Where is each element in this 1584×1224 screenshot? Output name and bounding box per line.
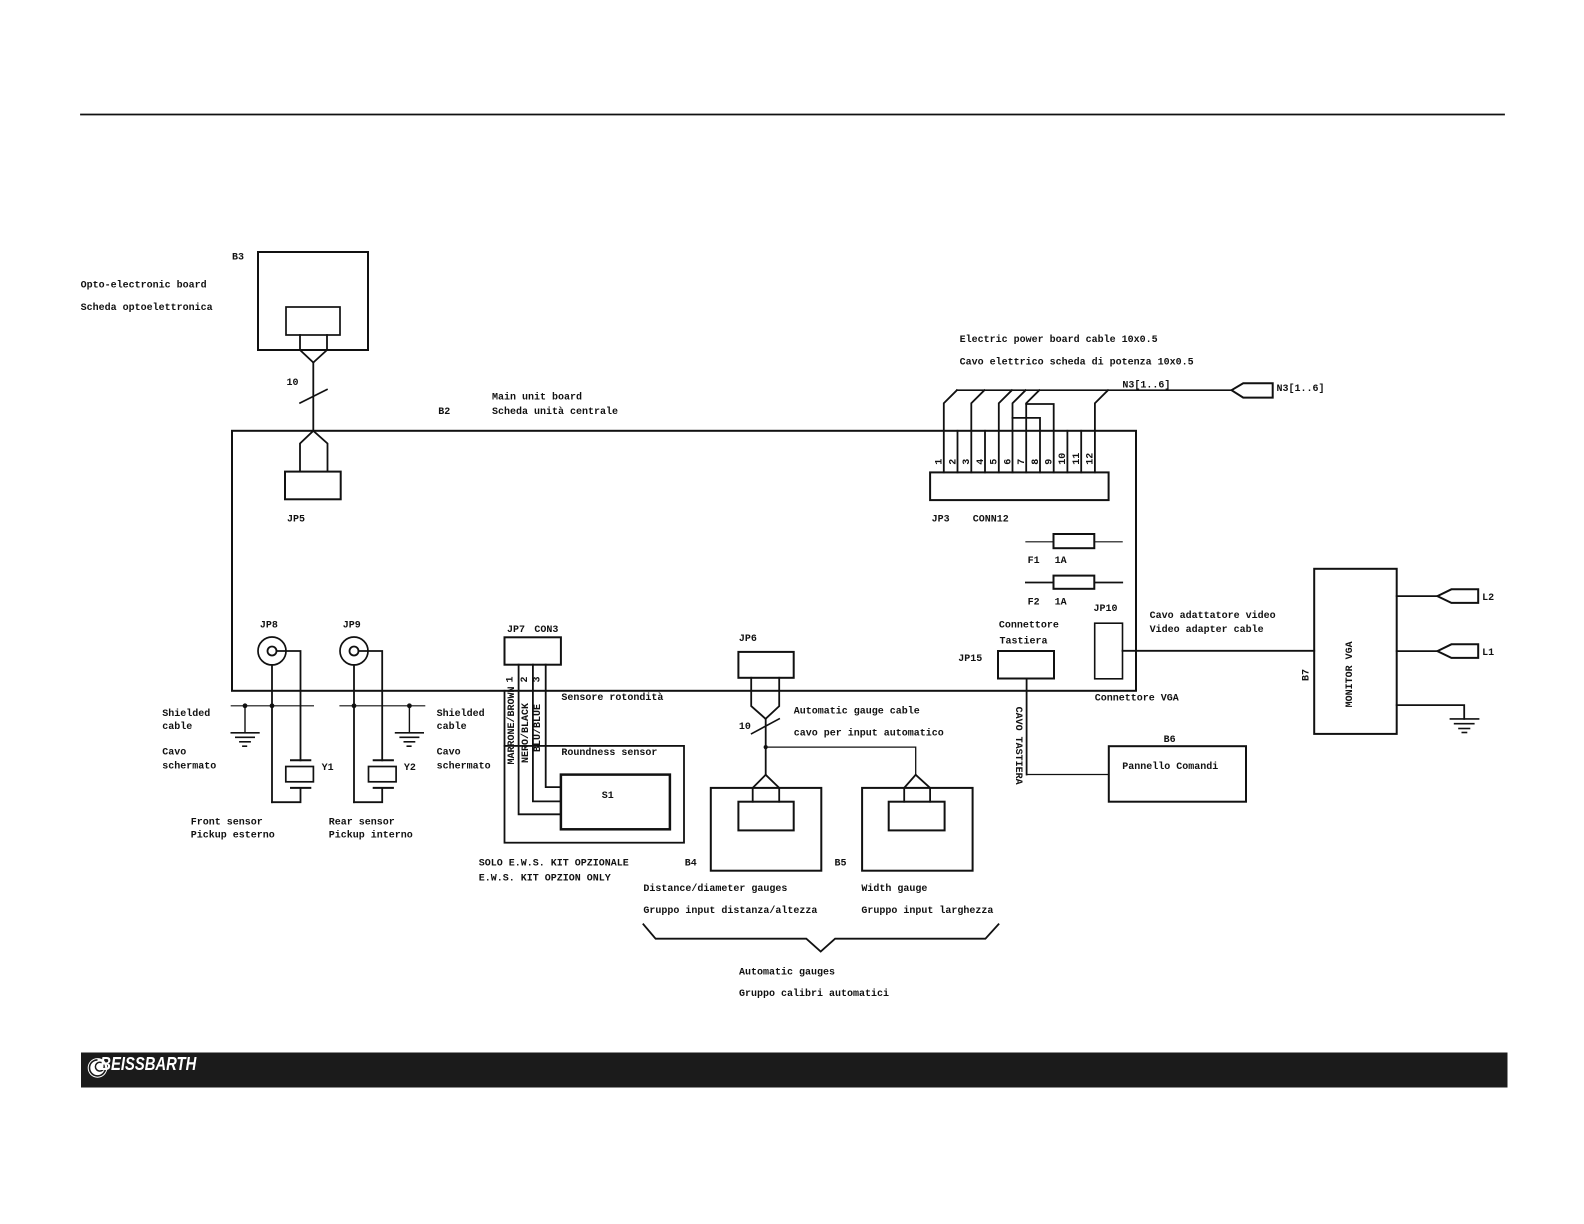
svg-text:B3: B3 [232,253,244,264]
connector JP5 funnel [300,431,328,472]
pin 11 [1080,431,1082,473]
wire keyboard cable [1026,679,1028,775]
svg-text:8: 8 [1031,459,1042,465]
svg-text:JP8: JP8 [260,621,278,632]
junction dot shield JP9 b [407,703,412,708]
svg-text:schermato: schermato [162,760,216,772]
wire B3 to JP5 cable [312,363,314,431]
svg-text:L1: L1 [1482,648,1494,659]
fuse F1 [1054,534,1095,548]
pin 8 wire jog [1013,418,1041,473]
ground symbol JP8 [231,733,259,746]
wire JP6 to junction [765,719,767,747]
svg-text:4: 4 [976,459,987,465]
top rule [81,114,1504,116]
svg-text:CAVO TASTIERA: CAVO TASTIERA [1012,707,1023,785]
shield line JP8 [231,705,313,707]
svg-text:JP3: JP3 [932,515,950,526]
wire JP7 pin3 to S1 [546,665,561,787]
flag L2 [1437,589,1478,603]
pin 12 wire [1095,390,1108,472]
fuse F2 wire [1026,582,1122,584]
svg-text:Pickup interno: Pickup interno [329,830,413,842]
crystal Y1 [286,760,314,788]
svg-text:Cavo elettrico scheda di poten: Cavo elettrico scheda di potenza 10x0.5 [960,357,1194,369]
svg-text:cable: cable [162,721,192,733]
distance/diameter gauge B4 [711,775,822,871]
svg-text:5: 5 [990,459,1001,465]
pin 9 wire jog [1026,404,1054,472]
cable slash mark 10 (B3 cable) [300,390,327,404]
svg-text:Distance/diameter gauges: Distance/diameter gauges [643,883,787,895]
connector JP9 (BNC) [340,637,368,665]
wire monitor ground [1397,705,1465,719]
svg-text:Cavo adattatore video: Cavo adattatore video [1150,610,1276,622]
svg-text:2: 2 [948,459,959,465]
connector JP5 [285,472,341,500]
svg-text:JP7: JP7 [507,625,525,636]
svg-text:6: 6 [1003,459,1014,465]
svg-text:Y1: Y1 [322,763,334,774]
svg-text:Gruppo calibri automatici: Gruppo calibri automatici [739,988,889,1000]
svg-text:B5: B5 [835,859,847,870]
svg-text:Main unit board: Main unit board [492,392,582,404]
svg-text:1: 1 [506,676,517,682]
ground symbol monitor [1450,719,1478,733]
svg-text:10: 10 [287,378,299,389]
wire shield JP8 to ground [244,706,246,733]
svg-text:3: 3 [962,459,973,465]
fuse F1 wire [1026,541,1122,543]
svg-text:Gruppo input distanza/altezza: Gruppo input distanza/altezza [643,905,817,917]
svg-text:Pannello Comandi: Pannello Comandi [1122,761,1218,773]
connector JP15 [998,651,1054,679]
pin 1 wire [944,390,957,472]
wire shield JP9 to ground [408,706,410,733]
svg-text:S1: S1 [602,791,614,802]
wire keyboard cable to B6 [1027,774,1109,776]
svg-text:BLU/BLUE: BLU/BLUE [532,704,544,752]
svg-text:SOLO E.W.S. KIT OPZIONALE: SOLO E.W.S. KIT OPZIONALE [479,859,629,870]
shield line JP9 [340,705,425,707]
junction dot shield JP9 a [352,703,357,708]
label Shielded cable right [437,708,491,773]
wire JP7 pin2 to S1 [533,665,561,802]
fuse F2 [1054,576,1095,589]
svg-text:9: 9 [1045,459,1056,465]
svg-text:BEISSBARTH: BEISSBARTH [100,1053,197,1074]
wire Y2 bottom loop [354,788,382,802]
svg-text:10: 10 [739,722,751,733]
junction dot automatic gauge cable [764,745,768,749]
svg-text:Connettore: Connettore [999,621,1059,632]
pin 10 [1066,431,1068,473]
connector JP7 CON3 [505,637,561,664]
svg-text:MONITOR VGA: MONITOR VGA [1345,641,1356,707]
main unit board B2 outline [232,431,1136,691]
svg-text:JP5: JP5 [287,515,305,526]
control panel B6 [1109,746,1246,802]
svg-text:Tastiera: Tastiera [1000,635,1048,647]
wire video adapter cable [1123,650,1315,652]
svg-text:B7: B7 [1302,669,1313,681]
svg-text:cable: cable [437,721,467,733]
svg-text:Scheda unità centrale: Scheda unità centrale [492,406,618,418]
pin 3 wire [971,390,984,472]
svg-text:Shielded: Shielded [162,708,210,720]
wire JP8 pin to Y1 [277,651,301,760]
svg-text:Video adapter cable: Video adapter cable [1150,624,1264,636]
pin 2 [957,431,959,473]
svg-text:L2: L2 [1482,593,1494,604]
svg-text:NERO/BLACK: NERO/BLACK [520,703,532,763]
svg-text:cavo per input automatico: cavo per input automatico [794,727,944,739]
svg-text:Y2: Y2 [404,763,416,774]
logo Beissbarth emblem [88,1058,108,1078]
wire JP9 shell down [353,665,355,802]
wire JP6 stubs and funnel [751,678,779,719]
svg-text:Gruppo input larghezza: Gruppo input larghezza [861,905,993,917]
svg-text:JP6: JP6 [739,634,757,645]
svg-text:10: 10 [1058,453,1069,465]
junction dot shield JP8 a [243,703,248,708]
svg-text:CON3: CON3 [534,625,558,636]
svg-text:12: 12 [1086,453,1097,465]
svg-text:Connettore VGA: Connettore VGA [1095,693,1179,704]
wire JP7 pin1 to S1 [519,665,561,815]
wire L1 [1397,650,1438,652]
svg-text:Sensore rotondità: Sensore rotondità [561,692,663,704]
wire L2 [1397,595,1438,597]
connector JP3 CONN12 body [930,472,1109,500]
pin 7 wire [1026,390,1039,472]
cable slash mark 10 (JP6 cable) [752,719,780,734]
footer logo bar [81,1053,1508,1088]
svg-text:MARRONE/BROWN: MARRONE/BROWN [506,686,518,764]
wire JP9 pin to Y2 [359,651,383,760]
ground symbol JP9 [396,733,424,746]
wire junction to B4 [765,747,767,775]
wire JP8 shell down [271,665,273,802]
svg-text:Opto-electronic board: Opto-electronic board [81,280,207,292]
svg-text:Cavo: Cavo [437,748,461,759]
wire junction to B5 branch [766,747,916,775]
svg-text:1A: 1A [1055,598,1067,609]
svg-text:2: 2 [520,676,531,682]
svg-text:B2: B2 [438,407,450,418]
brace automatic gauges [643,924,998,951]
connector JP8 (BNC) [258,637,286,665]
EWS kit box [505,691,685,843]
svg-text:Roundness sensor: Roundness sensor [561,747,657,759]
junction dot shield JP8 b [270,703,275,708]
svg-text:B6: B6 [1164,735,1176,746]
svg-text:Automatic gauges: Automatic gauges [739,967,835,979]
svg-text:CONN12: CONN12 [973,515,1009,526]
monitor B7 [1314,569,1397,734]
wire Y1 bottom loop [272,788,301,802]
wire B3 connector stubs and funnel [300,335,327,363]
svg-text:Rear sensor: Rear sensor [329,817,395,828]
svg-text:Scheda optoelettronica: Scheda optoelettronica [81,302,213,314]
svg-text:Cavo: Cavo [162,748,186,759]
svg-text:JP10: JP10 [1094,604,1118,615]
svg-text:F2: F2 [1028,598,1040,609]
svg-text:Pickup esterno: Pickup esterno [191,830,275,842]
pin 4 [984,431,986,473]
svg-text:JP15: JP15 [958,654,982,665]
width gauge B5 [862,775,973,871]
svg-text:N3[1..6]: N3[1..6] [1277,383,1325,395]
connector JP6 [738,652,793,678]
roundness sensor S1 [561,775,670,830]
svg-text:B4: B4 [685,859,697,870]
svg-text:Electric power board cable 10x: Electric power board cable 10x0.5 [960,334,1158,346]
bus line N3 [957,389,1232,391]
svg-text:schermato: schermato [437,760,491,772]
label Shielded cable left [162,708,216,773]
connector JP10 [1095,623,1123,679]
crystal Y2 [369,760,397,788]
pin 6 wire [1013,390,1026,472]
svg-text:E.W.S. KIT OPZION ONLY: E.W.S. KIT OPZION ONLY [479,873,611,884]
svg-text:Automatic gauge cable: Automatic gauge cable [794,705,920,717]
flag N3 [1232,383,1273,397]
svg-text:JP9: JP9 [343,621,361,632]
svg-text:Shielded: Shielded [437,708,485,720]
svg-text:1: 1 [935,459,946,465]
svg-text:1A: 1A [1055,556,1067,567]
svg-text:Width gauge: Width gauge [861,883,927,895]
svg-text:N3[1..6]: N3[1..6] [1122,380,1170,392]
pin 5 wire [999,390,1012,472]
svg-text:Front sensor: Front sensor [191,817,263,828]
svg-text:11: 11 [1072,453,1083,465]
opto-electronic board B3 [258,252,368,350]
flag L1 [1437,644,1478,658]
svg-text:7: 7 [1017,459,1028,465]
svg-text:3: 3 [533,676,544,682]
svg-text:F1: F1 [1028,556,1040,567]
